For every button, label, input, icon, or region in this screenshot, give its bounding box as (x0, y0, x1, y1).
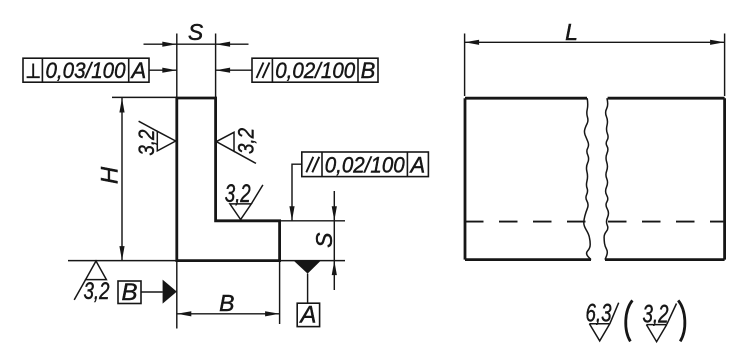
dimension B: extension lines (176, 261, 178, 329)
datum A: leader (307, 274, 309, 304)
break line left (wavy) (584, 98, 591, 259)
svg-text:A: A (129, 58, 146, 83)
dimension L: extension lines (464, 34, 466, 97)
dimension B: dimension line with arrows (177, 313, 280, 315)
svg-text:B: B (361, 58, 376, 83)
dimension L: dimension line with arrows (465, 41, 725, 43)
datum A: filled triangle (294, 261, 321, 274)
svg-text:3,2: 3,2 (225, 180, 251, 208)
svg-text:S: S (311, 232, 337, 248)
leader from perpendicularity frame (149, 69, 177, 71)
svg-text:3,2: 3,2 (84, 278, 110, 305)
dimension S (right step): dimension lines with arrows (333, 191, 335, 290)
svg-text:3,2: 3,2 (234, 128, 259, 154)
parallelism symbol (257, 63, 270, 79)
leader from parallelism frame A (292, 164, 302, 221)
datum A: box (297, 303, 319, 326)
opening parenthesis (626, 300, 633, 341)
L-shape part outline (177, 98, 280, 261)
datum B: filled triangle (163, 280, 177, 304)
closing parenthesis (678, 300, 685, 341)
svg-text:H: H (97, 166, 124, 184)
datum B: box (118, 281, 141, 304)
svg-text:0,02/100: 0,02/100 (275, 58, 356, 83)
svg-text:0,02/100: 0,02/100 (325, 152, 406, 177)
hidden edge (dashed) (465, 221, 586, 223)
roughness note 3,2 in parentheses (646, 304, 676, 342)
svg-text:3,2: 3,2 (643, 300, 669, 328)
roughness symbol 3,2 on right column face (216, 132, 256, 163)
right view rectangle outline with break (465, 98, 725, 259)
svg-text:A: A (409, 152, 426, 177)
feature control frame U3: parallelism 0,02/100 A (302, 152, 429, 177)
svg-text:L: L (565, 19, 578, 45)
parallelism symbol (306, 157, 319, 173)
svg-text:6,3: 6,3 (586, 300, 612, 328)
dimension S (top): dimension lines with arrows (144, 43, 249, 45)
leader from parallelism frame B (216, 69, 252, 71)
dimension H: extension line (112, 96, 177, 98)
svg-text:S: S (188, 19, 204, 45)
dimension S (top): extension lines (177, 34, 216, 98)
roughness symbol 3,2 on step surface (230, 185, 263, 220)
dimension H: dimension line with arrows (121, 98, 123, 261)
break line right (wavy) (604, 98, 608, 259)
perpendicularity symbol (27, 64, 40, 78)
baseline (bottom surface extension line) (68, 260, 345, 262)
svg-text:0,03/100: 0,03/100 (46, 58, 127, 83)
feature control frame U1: perpendicularity 0,03/100 A (23, 58, 149, 82)
roughness symbol 3,2 on left column face (139, 121, 176, 151)
dimension S (right step): extension line (280, 220, 345, 222)
general roughness note 6,3 (589, 303, 618, 341)
svg-text:A: A (298, 302, 316, 329)
roughness symbol 3,2 on bottom surface (74, 261, 106, 300)
feature control frame U2: parallelism 0,02/100 B (252, 58, 378, 82)
datum B: leader (141, 291, 163, 293)
svg-text:3,2: 3,2 (134, 130, 159, 156)
svg-text:B: B (219, 290, 234, 316)
svg-text:B: B (121, 279, 137, 306)
